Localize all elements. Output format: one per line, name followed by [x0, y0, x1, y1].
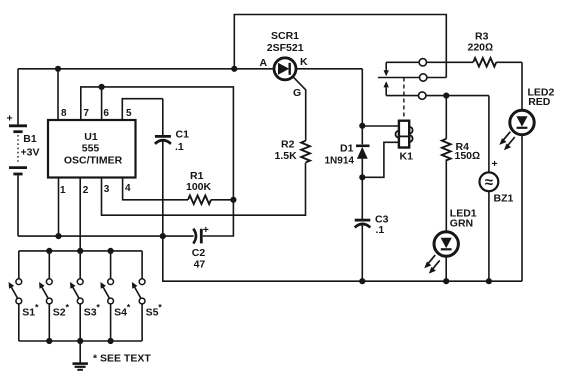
pin 3 — [102, 163, 306, 215]
switch S4 — [100, 251, 130, 341]
svg-text:C1: C1 — [176, 129, 190, 141]
svg-text:+: + — [7, 113, 13, 125]
svg-text:S1: S1 — [22, 307, 35, 319]
svg-text:D1: D1 — [340, 142, 354, 154]
wire main V+ line — [18, 68, 274, 70]
svg-text:RED: RED — [528, 96, 551, 108]
wire switch top bus — [19, 250, 142, 252]
svg-text:S2: S2 — [53, 307, 66, 319]
switch S3 — [70, 251, 100, 341]
svg-text:2: 2 — [83, 185, 89, 196]
svg-text:≈: ≈ — [485, 174, 493, 191]
svg-text:.1: .1 — [376, 224, 385, 236]
switch S5 — [132, 251, 162, 341]
svg-text:C2: C2 — [192, 247, 206, 259]
svg-text:G: G — [293, 87, 301, 99]
svg-text:* SEE TEXT: * SEE TEXT — [93, 353, 151, 365]
svg-text:150Ω: 150Ω — [455, 150, 481, 162]
pin 4 — [123, 178, 188, 200]
diode D1 — [325, 142, 370, 219]
LED1 (green) — [424, 208, 477, 282]
svg-text:+: + — [492, 158, 498, 170]
pin 7 — [81, 87, 102, 120]
capacitor C2 — [192, 224, 209, 271]
svg-text:*: * — [127, 303, 131, 313]
svg-text:K: K — [300, 56, 308, 68]
svg-text:220Ω: 220Ω — [468, 42, 494, 54]
resistor R1 — [186, 170, 233, 204]
switch S1 — [9, 251, 39, 341]
relay contact top (to R3) — [386, 59, 473, 66]
pin 1 — [58, 178, 60, 237]
wire pins 6-7 to R1/C2 node — [102, 87, 234, 236]
svg-text:B1: B1 — [23, 133, 37, 145]
wire switch bottom bus — [19, 340, 142, 342]
relay armature arrows — [384, 62, 389, 95]
svg-text:3: 3 — [104, 184, 110, 195]
svg-text:7: 7 — [83, 108, 89, 119]
svg-text:S4: S4 — [114, 307, 127, 319]
svg-text:1N914: 1N914 — [325, 155, 355, 166]
svg-text:R2: R2 — [281, 139, 295, 151]
wire relay coil bottom link — [362, 142, 398, 177]
svg-text:*: * — [96, 303, 100, 313]
pin 8 — [57, 69, 59, 120]
wire top rail — [234, 15, 446, 78]
capacitor C1 — [155, 99, 189, 236]
node junction dots — [46, 66, 492, 344]
svg-text:.1: .1 — [175, 141, 184, 153]
svg-text:K1: K1 — [400, 150, 414, 162]
svg-text:S3: S3 — [84, 307, 97, 319]
svg-text:BZ1: BZ1 — [494, 193, 514, 205]
svg-text:2SF521: 2SF521 — [267, 42, 304, 54]
svg-text:5: 5 — [126, 108, 132, 119]
wire relay mechanical link (dashed) — [403, 78, 405, 121]
pin 5 — [122, 99, 163, 120]
battery B1 — [7, 69, 40, 236]
svg-text:47: 47 — [194, 259, 206, 271]
wire bottom rail (battery minus) — [18, 235, 194, 237]
svg-text:+: + — [203, 224, 209, 236]
pin 6 — [101, 87, 103, 120]
svg-text:OSC/TIMER: OSC/TIMER — [64, 155, 123, 167]
svg-text:*: * — [158, 303, 162, 313]
svg-text:R3: R3 — [475, 30, 489, 42]
relay contact middle (to V+) — [378, 74, 446, 81]
svg-text:+3V: +3V — [21, 147, 40, 159]
resistor R2 — [275, 139, 311, 163]
svg-text:A: A — [260, 57, 268, 69]
LED2 (red) — [499, 62, 554, 281]
svg-text:4: 4 — [125, 183, 131, 194]
resistor R3 — [468, 30, 523, 66]
transistor SCR1 — [260, 30, 309, 99]
svg-text:SCR1: SCR1 — [271, 30, 299, 42]
svg-text:*: * — [35, 303, 39, 313]
svg-text:555: 555 — [82, 143, 100, 155]
pin 2 — [79, 178, 81, 251]
wire SCR gate — [293, 77, 305, 141]
buzzer BZ1 — [480, 96, 514, 282]
svg-text:U1: U1 — [84, 131, 98, 143]
capacitor C3 — [355, 214, 389, 282]
wire relay coil top link — [362, 125, 398, 127]
relay contact bottom (to R4/BZ1) — [386, 92, 489, 99]
op-amp U1 555 timer box — [48, 120, 136, 178]
svg-text:1.5K: 1.5K — [275, 150, 298, 162]
wire ground riser and bottom-right rail — [163, 236, 522, 281]
svg-text:8: 8 — [61, 108, 67, 119]
svg-text:S5: S5 — [146, 307, 159, 319]
wire SCR cathode to D1 column — [297, 69, 363, 144]
svg-text:*: * — [66, 303, 70, 313]
svg-text:GRN: GRN — [450, 217, 473, 229]
svg-text:100K: 100K — [186, 181, 212, 193]
svg-text:1: 1 — [60, 185, 66, 196]
ground — [73, 341, 88, 370]
svg-text:6: 6 — [103, 108, 109, 119]
relay K1 coil — [396, 121, 414, 163]
resistor R4 — [442, 96, 480, 232]
switch S2 — [39, 251, 69, 341]
